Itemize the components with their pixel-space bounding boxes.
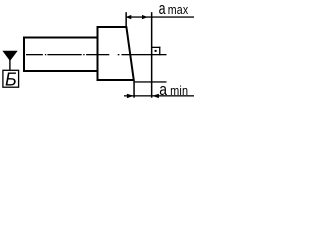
datum frame bbox=[3, 70, 19, 87]
flange top edge bbox=[97, 26, 128, 28]
a min left arrowhead bbox=[127, 94, 134, 98]
right-angle square dot bbox=[155, 50, 157, 52]
extension line below slant bottom corner bbox=[133, 81, 135, 98]
datum triangle (filled) bbox=[2, 51, 17, 61]
flange bottom edge thin extension to the right bbox=[135, 81, 167, 82]
a min dimension line bbox=[124, 95, 194, 96]
svg-text:max: max bbox=[168, 3, 188, 17]
svg-text:Б: Б bbox=[5, 70, 17, 90]
centerline dot 1 bbox=[45, 54, 46, 55]
flange left edge bbox=[97, 26, 99, 81]
centerline dot 2 bbox=[83, 54, 84, 55]
right-angle square top edge bbox=[151, 47, 160, 48]
shaft bottom edge bbox=[23, 70, 99, 72]
reference plane vertical line bbox=[151, 12, 153, 98]
flange bottom edge bbox=[97, 79, 135, 81]
right-angle square right edge bbox=[159, 47, 160, 56]
label a min bbox=[159, 81, 188, 100]
a max left arrowhead bbox=[126, 15, 132, 19]
centerline dash 3 bbox=[86, 54, 109, 55]
a max right arrowhead bbox=[142, 15, 148, 19]
shaft left edge bbox=[23, 36, 25, 72]
centerline dot 3 bbox=[118, 54, 120, 55]
a max dimension line bbox=[127, 16, 195, 17]
extension line above slant top corner bbox=[125, 12, 127, 27]
svg-text:min: min bbox=[170, 83, 188, 98]
centerline dash 4 (axis extension to reference plane) bbox=[122, 54, 167, 55]
centerline dash 1 bbox=[26, 54, 43, 55]
a min right arrowhead bbox=[152, 94, 159, 98]
label a max bbox=[159, 0, 189, 18]
flange slanted right face bbox=[125, 26, 135, 81]
centerline dash 2 bbox=[47, 54, 81, 55]
shaft top edge bbox=[23, 36, 99, 38]
datum leader line bbox=[9, 60, 10, 70]
svg-text:a: a bbox=[159, 81, 167, 100]
svg-text:a: a bbox=[159, 0, 167, 18]
